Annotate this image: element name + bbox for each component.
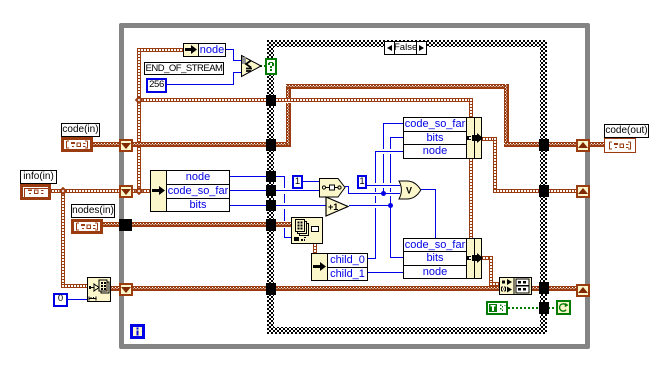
indicator code(out) terminal (604, 138, 636, 153)
tunnel: code array y=289 case right (539, 282, 549, 294)
or node (398, 180, 423, 200)
control info(in) label (20, 170, 57, 184)
wire: code array run y=86 (286, 84, 509, 89)
wire: 0 const to bottom node (68, 299, 87, 300)
shift register left SR1 (code) (119, 139, 133, 152)
wire: unbundle node out y=177 (230, 176, 285, 177)
wire: index array to child unbundle (313, 243, 317, 254)
junction diamond at info terminal (59, 187, 67, 195)
shift register right SR1 (code) (576, 139, 590, 152)
case selector label False (384, 41, 427, 55)
wire: unbundle bits out y=206 to +1 (230, 205, 327, 206)
while loop border (119, 23, 590, 349)
wire: 1 const #2 to OR top (366, 185, 400, 186)
tunnel: cluster y=100 case left (266, 95, 276, 106)
control nodes(in) terminal (71, 219, 103, 234)
junction diamond x139 y100 (135, 96, 143, 104)
case selector ? terminal (265, 58, 277, 75)
wire: shifted code riser x=383 to bundle code_so_far (383, 123, 384, 149)
constant 0 (53, 293, 68, 307)
control code(in) label (61, 123, 100, 137)
wire: node out to comparator (226, 49, 234, 50)
tunnel: code array y=145 case right (539, 139, 549, 151)
wire: shift out step (345, 186, 349, 187)
wire: T const to loop condition (green) (508, 307, 557, 309)
tunnel: boolean y=308 case right (539, 302, 549, 314)
wire: lower bundle output to build array (482, 256, 493, 260)
wire: cluster run y=50 to top unbundle (137, 48, 184, 52)
wire: child_0 riser x=375 (dashed at crossings) (368, 258, 376, 259)
wire: node riser x=284 down to index input (dashed at crossings) (284, 176, 285, 188)
build array node (499, 277, 532, 295)
logical shift node (319, 178, 346, 198)
wire: unbundle code_so_far out y=191 to shift node (230, 190, 320, 191)
tunnel: nodes array case left (266, 219, 276, 231)
bottom-left build array node (87, 277, 111, 302)
svg-text:+1: +1 (328, 202, 338, 212)
comparator (<=?) (240, 54, 264, 79)
shift register left SR3 (array) (119, 283, 133, 296)
bundle by name lower (code_so_far/bits/node) (403, 238, 467, 252)
wire: comparator to selector (green) (260, 65, 268, 67)
control info(in) terminal (20, 184, 51, 200)
wire: code array long run y=289 to build array and SR3 right (131, 286, 579, 291)
wire: nodes array inside loop y=225 to index array (131, 222, 292, 227)
wire: 256 to comparator (167, 84, 234, 85)
increment +1 node (325, 196, 350, 217)
wire: code(in) array to loop border (92, 142, 121, 147)
wire: cluster drop x=63 from info junction to bottom node (61, 189, 65, 286)
wire: +1 out y=206 (349, 205, 391, 206)
shift register left SR2 (info) (119, 185, 133, 198)
wire: cluster run y=100 into case to x=471 (137, 98, 473, 102)
wire: bits+1 riser x=390 (390, 137, 391, 149)
constant 256 (146, 78, 167, 93)
tunnel: bits blue case left (266, 200, 276, 211)
svg-text:V: V (406, 186, 412, 196)
unbundle by name (node) top (183, 43, 199, 57)
wire: nodes(in) array to loop border (102, 222, 122, 227)
case structure border (checkered) (267, 40, 547, 334)
shift register right SR3 (array) (576, 284, 590, 297)
unbundle by name (node/code_so_far/bits) (150, 170, 167, 212)
wire: cluster riser x=471 y100-238 (469, 98, 473, 238)
wire: code array riser x=288 (286, 84, 291, 98)
wire: cluster run y=286 into bottom-left node (61, 284, 88, 288)
wire: code array out to code(out) (588, 142, 605, 147)
wire: bottom node array out to SR3 (109, 286, 122, 291)
indicator code(out) label (604, 124, 649, 138)
wire: info cluster inside loop to unbundle (131, 189, 152, 193)
control nodes(in) label (71, 204, 115, 218)
tunnel: nodes array loop left (black) (119, 219, 132, 231)
wire: code array run y=145 to SR1 right (504, 142, 579, 147)
tunnel: info cluster y=191 case right (539, 185, 549, 197)
tunnel: code_so_far blue case left (266, 185, 276, 196)
tunnel: code array y=289 case left (266, 283, 276, 295)
unbundle by name (child_0/child_1) (311, 253, 328, 281)
wire: upper bundle output to SR2 (482, 137, 497, 141)
constant 1 (or input) (357, 175, 367, 189)
wire: code array riser x=506 (504, 84, 509, 145)
control code(in) terminal (61, 137, 93, 152)
label END_OF_STREAM (144, 62, 224, 75)
junction diamond x139 y191 (135, 187, 143, 195)
wire: info(in) cluster to loop border (51, 189, 121, 193)
wire: child_1 to lower bundle node (368, 272, 403, 273)
wire: cluster riser x=139 from y50 to y191 (137, 48, 141, 191)
boolean constant T (486, 301, 508, 315)
wire: 1 const to shift node (302, 181, 320, 182)
junction dot shifted code (381, 191, 386, 196)
tunnel: node blue case left (266, 171, 276, 182)
loop condition terminal (556, 300, 571, 315)
shift register right SR2 (info) (576, 185, 590, 198)
iteration terminal i (130, 324, 145, 339)
constant 1 (shift amount) (292, 175, 303, 189)
junction dot bits+1 (388, 203, 393, 208)
bundle by name upper (code_so_far/bits/node) (403, 117, 467, 132)
wire: OR out to lower bundle (421, 189, 436, 190)
index array node (291, 217, 323, 244)
tunnel: code array y=145 case left (266, 139, 276, 151)
wire: code array inside loop y=145 (131, 142, 291, 147)
